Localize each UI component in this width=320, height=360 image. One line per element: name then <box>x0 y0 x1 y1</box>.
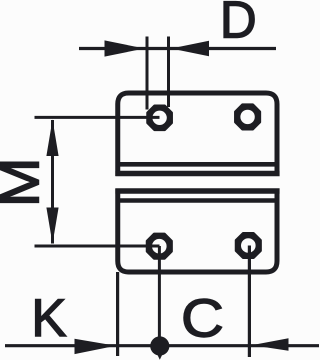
svg-text:M: M <box>0 157 51 207</box>
svg-text:C: C <box>181 289 224 349</box>
svg-text:K: K <box>31 289 66 348</box>
svg-text:D: D <box>220 0 257 49</box>
